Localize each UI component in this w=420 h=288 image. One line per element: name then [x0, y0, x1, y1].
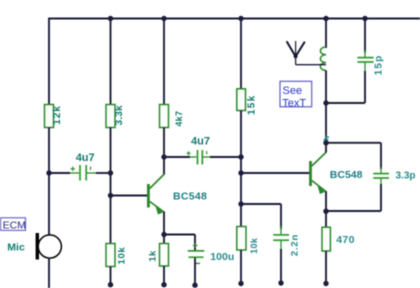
wire branch A bottom (mic to bottom edge): [48, 258, 50, 288]
wire 2.2n horizontal: [241, 203, 281, 205]
label See TexT box: [280, 81, 312, 109]
node 2.2n bottom: [278, 280, 283, 285]
node D-base Q2: [238, 170, 243, 175]
wire branch D bottom: [240, 250, 242, 284]
node 100u bottom: [192, 283, 197, 288]
svg-text:ECM: ECM: [3, 220, 26, 232]
node Q1 collector / cap2: [161, 154, 166, 159]
wire Q1 base horizontal: [111, 195, 148, 197]
resistor 12k: [45, 105, 64, 128]
node Q2 collector junction: [323, 140, 328, 145]
svg-text:10k: 10k: [249, 237, 259, 254]
svg-text:15k: 15k: [246, 95, 257, 115]
wire Q2 collector vertical: [325, 143, 327, 153]
antenna: [287, 41, 326, 65]
node junction B-base Q1: [108, 193, 113, 198]
node D-cap2: [238, 154, 243, 159]
wire 3.3p right vertical bottom: [380, 184, 382, 211]
inductor L1 coil: [320, 47, 326, 70]
wire branch C vertical top (rail to R 4k7): [163, 19, 165, 106]
capacitor 3.3p: [373, 167, 415, 185]
resistor 4k7: [160, 105, 185, 128]
svg-text:See: See: [283, 85, 303, 97]
wire top supply rail: [48, 18, 420, 20]
wire Q1 collector vertical: [163, 157, 165, 175]
node junction B-cap1: [108, 170, 113, 175]
svg-text:10k: 10k: [116, 247, 127, 265]
wire branch C middle (R 4k7 to collector node): [163, 128, 165, 158]
transistor Q1 BC548: [148, 174, 207, 214]
node rail-B: [108, 16, 113, 21]
wire 15p branch vertical top: [364, 19, 366, 53]
resistor 10k (bias lower): [106, 244, 127, 267]
wire cap2 right lead: [210, 156, 241, 158]
capacitor C1 4u7: [70, 152, 96, 180]
node rail-D: [238, 16, 243, 21]
wire coil-bottom to collector node: [325, 103, 327, 143]
resistor 10k (emitter filter): [237, 227, 259, 254]
label ECM box: [1, 218, 26, 232]
wire branch B middle: [110, 128, 112, 244]
svg-text:3.3k: 3.3k: [114, 105, 125, 126]
svg-text:BC548: BC548: [330, 169, 363, 181]
wire branch A vertical top (rail to R 12k): [48, 18, 50, 105]
svg-text:4k7: 4k7: [174, 111, 184, 127]
capacitor C2 4u7 (interstage): [164, 135, 210, 164]
wire 3.3p bottom horizontal: [326, 210, 381, 212]
node Q1 emitter junction: [161, 232, 166, 237]
node coil bottom junction: [323, 100, 328, 105]
wire 470 bottom: [325, 251, 327, 284]
node rail-C: [161, 16, 166, 21]
wire 2.2n bottom: [280, 249, 282, 283]
svg-text:4u7: 4u7: [76, 152, 95, 164]
wire Q1 emitter vertical: [163, 212, 165, 244]
node B bottom: [108, 282, 113, 287]
svg-text:4u7: 4u7: [191, 135, 210, 147]
node rail-E: [323, 16, 328, 21]
resistor 470: [322, 227, 355, 251]
wire 15p bottom horizontal to coil node: [326, 102, 365, 104]
svg-text:3.3p: 3.3p: [396, 171, 416, 182]
wire Q2 base horizontal: [241, 172, 310, 174]
node 470 bottom: [323, 281, 328, 286]
svg-text:BC548: BC548: [173, 191, 207, 203]
resistor 15k: [237, 89, 257, 115]
svg-text:1k: 1k: [148, 250, 159, 262]
wire 15p bottom vertical: [364, 71, 366, 103]
wire 3.3p top horizontal: [326, 142, 381, 144]
capacitor C3 100u electrolytic: [188, 235, 235, 264]
wire 100u bottom: [194, 258, 196, 285]
svg-text:Mic: Mic: [7, 241, 25, 253]
microphone ECM: [36, 233, 62, 260]
wire cap1 left lead: [49, 172, 70, 174]
node D bottom: [238, 281, 243, 286]
node D-2.2n: [238, 201, 243, 206]
node junction A-cap1: [46, 170, 51, 175]
node Q2 emitter junction: [323, 209, 328, 214]
wire branch B vertical top (rail to R 3.3k): [110, 19, 112, 106]
wire branch B bottom: [110, 267, 112, 285]
svg-text:470: 470: [336, 234, 354, 246]
wire branch A middle (R 12k to mic): [48, 128, 50, 236]
wire below coil: [325, 70, 327, 103]
wire branch D middle: [240, 111, 242, 227]
node C bottom: [161, 282, 166, 287]
svg-text:12k: 12k: [52, 105, 63, 125]
wire branch D vertical top (rail to R 15k): [240, 19, 242, 90]
capacitor 15p: [357, 50, 384, 75]
transistor Q2 BC548: [311, 152, 363, 193]
wire Q2 emitter vertical: [325, 191, 327, 226]
resistor 1k: [148, 244, 169, 267]
net pin marker: [323, 136, 329, 140]
resistor 3.3k: [106, 105, 125, 128]
wire branch C bottom: [163, 266, 165, 285]
wire branch E vertical top (rail to coil): [325, 19, 327, 49]
capacitor 2.2n: [273, 204, 300, 256]
wire cap1 right lead: [96, 172, 111, 174]
node rail-15p: [362, 16, 367, 21]
wire 3.3p right vertical top: [380, 143, 382, 169]
svg-text:100u: 100u: [210, 251, 234, 263]
svg-text:2.2n: 2.2n: [290, 234, 301, 256]
wire emitter to 100u: [164, 234, 195, 236]
svg-text:TexT: TexT: [282, 97, 306, 109]
svg-text:15p: 15p: [374, 55, 385, 76]
